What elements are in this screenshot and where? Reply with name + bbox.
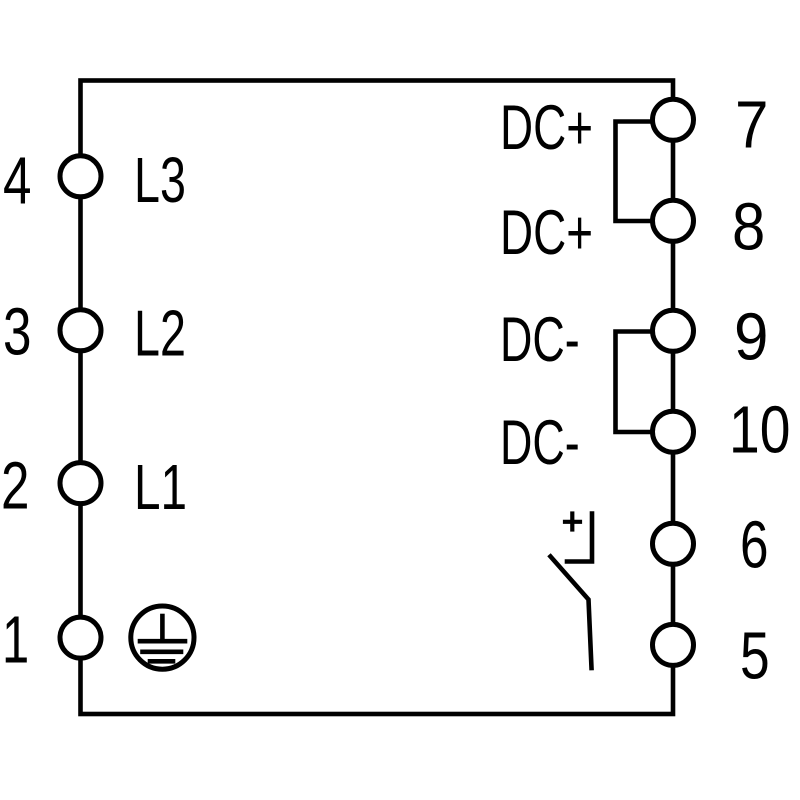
terminal 4	[60, 156, 101, 197]
pin number 1	[2, 606, 29, 673]
pin number 7	[735, 91, 768, 158]
DC-OK relay contact fixed terminal	[567, 514, 592, 562]
pin number 9	[734, 303, 768, 370]
pin number 6	[740, 511, 769, 578]
terminal 5	[653, 624, 694, 665]
DC-OK relay contact blade	[551, 557, 592, 669]
label DC+ terminal 7	[500, 96, 593, 159]
terminal 8	[653, 200, 694, 241]
terminal 9	[653, 310, 694, 351]
pin number 4	[3, 147, 31, 214]
terminal 10	[653, 411, 694, 452]
terminal 7	[653, 99, 694, 140]
pin number 5	[740, 622, 770, 689]
pin number 3	[3, 298, 31, 365]
label L3	[134, 148, 186, 212]
terminal 3	[60, 310, 101, 351]
label L1	[134, 455, 187, 519]
label DC+ terminal 8	[500, 201, 593, 264]
pin number 2	[1, 452, 29, 519]
pin number 8	[732, 193, 765, 260]
label DC- terminal 9	[500, 308, 580, 371]
pin number 10	[729, 396, 790, 463]
label DC- terminal 10	[500, 411, 580, 474]
label L2	[134, 301, 186, 366]
bracket link terminals 9-10	[616, 332, 653, 433]
terminal 6	[653, 523, 694, 564]
terminal 2	[60, 463, 101, 504]
bracket link terminals 7-8	[616, 122, 653, 222]
terminal 1	[60, 617, 101, 658]
protective earth symbol	[131, 606, 194, 669]
DC-OK relay contact plus mark	[565, 514, 580, 530]
enclosure outline	[81, 81, 674, 715]
